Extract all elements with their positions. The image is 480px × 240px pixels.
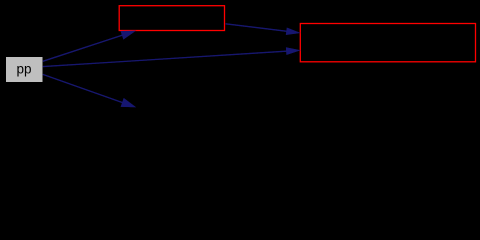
wire top box to right box [226,24,289,32]
wire pp to top box [43,35,124,62]
node top red box [119,6,224,31]
arrowhead top box to right box [286,28,301,36]
arrowhead pp to bottom node [121,98,137,108]
node pp [6,57,43,82]
svg-text:pp: pp [16,62,31,77]
arrowhead pp to top box [121,31,137,40]
wire pp to right box [43,51,288,67]
arrowhead pp to right box [286,47,301,55]
wire pp to bottom node [43,74,124,103]
node right red box [300,24,475,62]
